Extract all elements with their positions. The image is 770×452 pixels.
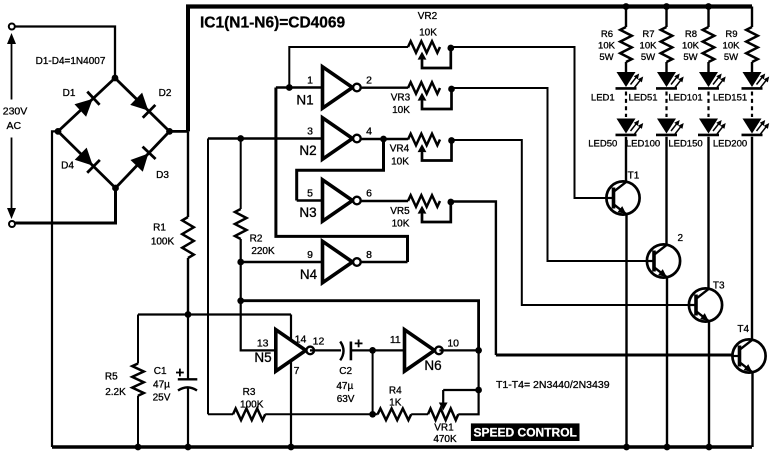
wire R4 to VR1	[411, 413, 428, 415]
svg-text:47µ: 47µ	[153, 380, 170, 391]
wire bridge edge bottom-left	[58, 131, 116, 188]
wire R5 to ground bus	[137, 396, 139, 447]
LED LED1	[617, 72, 636, 87]
capacitor C2	[340, 342, 343, 361]
svg-text:R3: R3	[243, 387, 256, 398]
wire R5 branch from supply rail	[137, 315, 139, 364]
svg-text:25V: 25V	[153, 393, 171, 404]
svg-text:10K: 10K	[640, 41, 658, 52]
wire VR4 to T3 base	[452, 140, 690, 305]
svg-text:1K: 1K	[389, 398, 402, 409]
wire T3 emitter to ground bus	[708, 321, 710, 447]
svg-text:3: 3	[307, 126, 313, 138]
svg-text:6: 6	[366, 188, 372, 200]
svg-text:LED200: LED200	[713, 139, 747, 150]
node top bus column 1	[623, 3, 630, 10]
resistor R2	[235, 209, 247, 239]
op-amp inverter N4	[323, 241, 353, 283]
potentiometer VR2	[408, 41, 440, 53]
svg-text:2.2K: 2.2K	[105, 387, 126, 398]
wire column 1 top lead	[625, 7, 627, 28]
wire VR3 to T2 base	[452, 88, 648, 261]
wire R8 to LED string	[707, 62, 709, 72]
svg-text:R5: R5	[105, 372, 118, 383]
svg-text:D1-D4=1N4007: D1-D4=1N4007	[36, 56, 106, 67]
wire T1 emitter to ground bus	[625, 214, 627, 447]
svg-text:N5: N5	[254, 350, 271, 365]
svg-text:13: 13	[257, 337, 269, 349]
wire N4 output feedback to N1 input	[276, 88, 408, 263]
svg-text:SPEED CONTROL: SPEED CONTROL	[474, 425, 577, 439]
transistor T1	[606, 181, 639, 214]
transistor T3	[689, 288, 722, 321]
resistor R6	[620, 27, 632, 62]
wire N4 input	[241, 261, 323, 263]
wire R9 to LED string	[751, 62, 753, 72]
svg-text:D1: D1	[63, 88, 76, 99]
wire AC live top: mains terminal to bridge top node	[15, 27, 115, 79]
wire T4 emitter to ground bus	[751, 372, 753, 447]
wire C2 junction down to R4 chain	[372, 350, 374, 414]
node bridge left	[55, 128, 62, 135]
svg-text:VR3: VR3	[391, 92, 411, 103]
wire T2 emitter to ground bus	[666, 277, 668, 447]
capacitor C1	[178, 378, 198, 380]
diode D3	[130, 154, 148, 172]
node N2 input R2 junction	[237, 135, 244, 142]
svg-text:2: 2	[366, 75, 372, 87]
wire bridge edge top-right	[115, 78, 170, 131]
wire VR5 to T4 base	[451, 202, 496, 356]
svg-text:T1: T1	[628, 171, 640, 182]
transistor T4	[732, 339, 765, 372]
svg-text:10K: 10K	[391, 156, 409, 167]
svg-text:10K: 10K	[598, 41, 616, 52]
LED LED151	[743, 72, 762, 87]
wire N2 input line down to R3	[207, 139, 209, 415]
svg-text:LED100: LED100	[626, 139, 660, 150]
svg-text:C2: C2	[339, 366, 352, 377]
node supply C1 junction	[185, 311, 192, 318]
svg-text:7: 7	[294, 365, 300, 377]
wire supply rail to pin 14	[138, 313, 291, 315]
wire LED string dashed continuation column 3	[707, 92, 709, 118]
node N4 input junction	[237, 259, 244, 266]
wire N1 input feedback up to VR2 left	[289, 47, 408, 88]
svg-text:R9: R9	[725, 29, 737, 40]
LED LED100	[657, 119, 676, 134]
wire N5 pin 14 VDD	[290, 315, 292, 342]
svg-text:LED150: LED150	[668, 139, 702, 150]
svg-text:LED151: LED151	[713, 92, 747, 103]
wire column 3 LED to T3 collector	[707, 137, 709, 289]
node VR1 wiper junction	[475, 387, 482, 394]
terminal mains N	[9, 221, 15, 227]
wire column 4 top lead	[751, 7, 753, 28]
svg-text:N1: N1	[296, 93, 313, 108]
svg-text:10K: 10K	[682, 41, 700, 52]
node N6 output junction	[475, 347, 482, 354]
potentiometer VR5	[408, 195, 440, 207]
transistor T2	[647, 244, 680, 277]
wire column 1 LED to T1 collector	[625, 137, 627, 182]
svg-text:T4: T4	[737, 324, 749, 335]
svg-text:5W: 5W	[724, 52, 738, 63]
wire positive vertical bridge to R1	[187, 131, 189, 217]
svg-text:D3: D3	[156, 170, 169, 181]
wire AC neutral bottom: terminal to bridge bottom node	[15, 188, 115, 223]
svg-text:LED51: LED51	[628, 92, 657, 103]
wire column 2 LED to T2 collector	[665, 137, 667, 245]
svg-text:4: 4	[366, 126, 372, 138]
node N5 pin7 ground junction	[288, 444, 295, 451]
wire C1 top lead	[187, 315, 189, 380]
wire C2 to N6 input	[351, 349, 405, 351]
svg-text:5: 5	[307, 188, 313, 200]
resistor R5	[132, 364, 144, 396]
svg-text:100K: 100K	[240, 399, 264, 410]
svg-text:10K: 10K	[392, 105, 410, 116]
svg-text:47µ: 47µ	[336, 381, 353, 392]
wire column 4 LED to T4 collector	[751, 137, 753, 340]
wire R2 top to N2 input	[240, 139, 242, 210]
label 230V AC source arrow	[11, 39, 13, 100]
wire bridge edge bottom-right	[116, 131, 170, 188]
svg-text:N2: N2	[299, 143, 316, 158]
svg-text:5W: 5W	[641, 52, 655, 63]
wire N3 input	[297, 199, 323, 201]
wire column 3 top lead	[707, 7, 709, 28]
svg-text:10: 10	[447, 337, 459, 349]
LED LED150	[699, 119, 718, 134]
wire bridge edge top-left	[58, 78, 115, 131]
svg-text:470K: 470K	[433, 434, 457, 445]
node top bus column 3	[705, 3, 712, 10]
wire C1 bottom lead	[187, 389, 189, 448]
wire R1 to supply node	[187, 258, 189, 315]
wire N4 output	[361, 261, 408, 263]
svg-text:10K: 10K	[723, 41, 741, 52]
label C2 plus	[355, 342, 363, 344]
LED LED51	[657, 72, 676, 87]
wire column 2 top lead	[665, 7, 667, 28]
svg-text:230V: 230V	[3, 106, 28, 118]
wire N6 feedback to R2/R3 chain	[241, 301, 479, 351]
node top bus column 2	[663, 3, 670, 10]
svg-text:14: 14	[295, 334, 307, 346]
op-amp inverter N1	[323, 67, 353, 109]
svg-text:100K: 100K	[151, 237, 175, 248]
svg-text:R4: R4	[389, 386, 402, 397]
wire R7 to LED string	[665, 62, 667, 72]
node T1 emitter ground junction	[623, 444, 630, 451]
wire VR2 to T1 base	[451, 47, 607, 198]
svg-text:10K: 10K	[392, 219, 410, 230]
resistor R4	[378, 409, 412, 421]
LED LED50	[617, 119, 636, 134]
wire R2 bottom chain down to N5 input	[241, 239, 276, 350]
svg-text:2: 2	[678, 233, 684, 244]
wire N1 input	[276, 86, 323, 88]
node T3 emitter ground junction	[706, 444, 713, 451]
resistor R8	[703, 27, 715, 62]
svg-text:12: 12	[313, 336, 325, 348]
svg-text:AC: AC	[7, 120, 22, 132]
wire positive vertical to top bus	[186, 5, 190, 132]
svg-text:11: 11	[390, 334, 401, 346]
svg-text:R8: R8	[685, 29, 697, 40]
wire VR1 right end up to N6 output	[458, 350, 478, 414]
op-amp inverter N2	[323, 118, 353, 160]
wire top positive bus	[186, 4, 752, 8]
svg-text:VR4: VR4	[390, 143, 410, 154]
svg-text:VR5: VR5	[390, 206, 410, 217]
label C1 plus	[176, 372, 184, 374]
potentiometer VR4	[408, 134, 440, 146]
svg-text:LED50: LED50	[588, 139, 617, 150]
wire N2 input	[208, 137, 323, 139]
wire N5 output to C2	[310, 349, 341, 351]
wire ground bus bottom	[52, 445, 752, 449]
wire bridge negative: left node down to ground bus	[52, 131, 58, 447]
diode D1	[74, 99, 92, 117]
wire N3 output to VR5 row	[361, 200, 408, 202]
svg-text:T1-T4= 2N3440/2N3439: T1-T4= 2N3440/2N3439	[496, 379, 610, 391]
svg-text:R2: R2	[250, 234, 263, 245]
wire T4 base	[496, 354, 733, 357]
node N2 output junction	[380, 136, 387, 143]
svg-text:C1: C1	[154, 366, 167, 377]
wire N2 output to VR4 row	[361, 138, 408, 140]
svg-text:D4: D4	[61, 161, 74, 172]
wire R3 left lead	[208, 413, 233, 415]
op-amp inverter N3	[323, 180, 353, 222]
terminal mains L	[9, 24, 15, 30]
node bridge top	[112, 75, 119, 82]
diode D2	[130, 93, 148, 111]
diode D4	[75, 148, 93, 166]
svg-text:10K: 10K	[419, 27, 437, 38]
node bridge bottom	[112, 185, 119, 192]
svg-text:5W: 5W	[599, 52, 613, 63]
wire R3 to R4	[265, 413, 377, 415]
svg-text:9: 9	[307, 249, 313, 261]
svg-text:LED1: LED1	[591, 92, 615, 103]
svg-text:8: 8	[366, 249, 372, 261]
svg-text:R6: R6	[601, 29, 613, 40]
op-amp inverter N5	[276, 330, 306, 372]
svg-text:1: 1	[307, 75, 313, 87]
svg-text:R1: R1	[153, 223, 166, 234]
svg-text:D2: D2	[159, 88, 172, 99]
svg-text:T3: T3	[713, 280, 725, 291]
svg-text:220K: 220K	[251, 246, 275, 257]
node N6 feedback tap on R2 chain	[237, 297, 244, 304]
svg-text:R7: R7	[642, 29, 654, 40]
resistor R3	[233, 409, 265, 421]
wire LED string dashed continuation column 4	[751, 92, 753, 118]
wire LED string dashed continuation column 1	[625, 92, 627, 118]
svg-text:63V: 63V	[337, 394, 355, 405]
node R4 C2 junction	[369, 411, 376, 418]
node T2 emitter ground junction	[664, 444, 671, 451]
node bridge right	[166, 128, 173, 135]
potentiometer VR1	[428, 409, 458, 421]
node C2 N6 input junction	[369, 347, 376, 354]
node C1 ground junction	[185, 444, 192, 451]
wire N1 output to VR2 row	[361, 86, 408, 88]
wire LED string dashed continuation column 2	[665, 92, 667, 118]
label SPEED CONTROL box	[471, 423, 580, 441]
svg-text:LED101: LED101	[668, 92, 702, 103]
wire N5 pin 7 VSS to ground bus	[290, 361, 292, 448]
resistor R9	[746, 27, 758, 62]
svg-text:IC1(N1-N6)=CD4069: IC1(N1-N6)=CD4069	[200, 15, 346, 32]
svg-text:VR1: VR1	[434, 423, 454, 434]
op-amp inverter N6	[405, 330, 435, 372]
resistor R7	[661, 27, 673, 62]
wire bridge right node to positive vertical	[170, 130, 189, 133]
LED LED101	[699, 72, 718, 87]
svg-text:N6: N6	[424, 358, 441, 373]
wire N2 output feedback to N3 input	[297, 139, 384, 201]
svg-text:N4: N4	[300, 267, 318, 282]
node N1 input junction	[286, 84, 293, 91]
wire R6 to LED string	[625, 62, 627, 72]
svg-text:VR2: VR2	[418, 11, 438, 22]
wire N6 output	[439, 349, 478, 351]
svg-text:N3: N3	[299, 205, 316, 220]
svg-text:5W: 5W	[683, 52, 697, 63]
wire VR1 wiper loop to N6 output	[443, 389, 478, 391]
resistor R1	[182, 217, 194, 258]
potentiometer VR3	[408, 82, 440, 94]
LED LED200	[743, 119, 762, 134]
node R5 ground junction	[135, 444, 142, 451]
